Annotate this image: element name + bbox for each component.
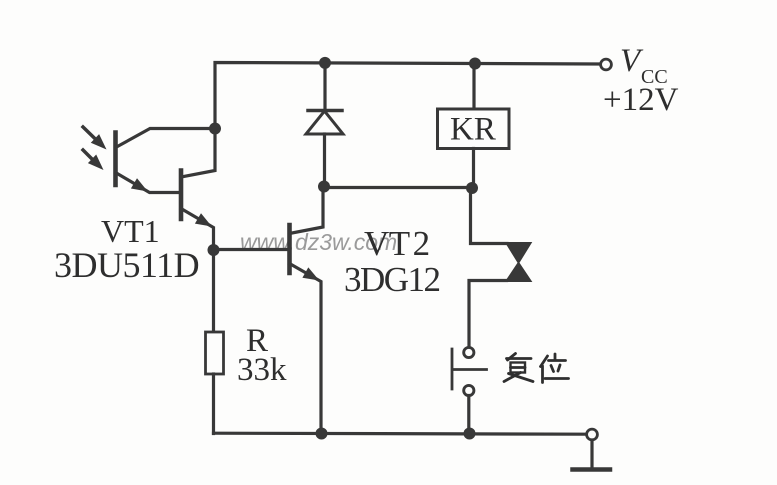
svg-text:KR: KR — [450, 112, 496, 148]
wire VT2 collector — [290, 187, 324, 234]
wire button to bottom rail — [467, 396, 470, 434]
diode VD cathode bar — [308, 109, 342, 113]
reset button bottom contact — [464, 385, 474, 395]
svg-text:3DG12: 3DG12 — [344, 260, 440, 299]
wire bottom rail — [214, 433, 587, 434]
terminal bottom-right open circle — [587, 429, 598, 440]
reset button actuator — [452, 349, 487, 389]
wire resistor to bottom rail — [212, 374, 215, 434]
node top rail diode branch — [319, 57, 331, 69]
svg-text:VT2: VT2 — [364, 224, 430, 263]
svg-text:33k: 33k — [237, 352, 287, 388]
wire diode to node — [323, 134, 326, 187]
wire rail to diode — [323, 63, 326, 111]
resistor R body — [206, 332, 224, 374]
svg-text:+12V: +12V — [603, 82, 679, 118]
relay coil KR box — [438, 109, 510, 149]
light arrow 1 — [83, 127, 107, 150]
wire VT2 base — [214, 248, 290, 251]
phototransistor VT1 first base bar — [113, 133, 118, 186]
node diode / KR / VT2 collector — [318, 181, 330, 193]
trigger diode lower triangle — [507, 263, 531, 281]
复 — [508, 354, 516, 361]
node top rail KR branch — [469, 58, 481, 70]
wire KR to node — [472, 149, 475, 189]
wire VT1 collector horizontal — [117, 129, 216, 148]
wire top rail Vcc — [215, 63, 601, 129]
node VT1 emitter / R / VT2 base — [208, 244, 220, 256]
svg-text:3DU511D: 3DU511D — [54, 245, 199, 285]
wire trigger diode to reset button — [469, 281, 507, 348]
wire VT1 second emitter — [181, 209, 214, 250]
phototransistor VT1 second base bar — [179, 171, 184, 220]
svg-text:VT1: VT1 — [101, 213, 160, 249]
wire node to trigger diode — [471, 188, 508, 244]
transistor VT2 base bar — [287, 225, 292, 273]
位 — [541, 356, 548, 367]
arrowhead VT1 first emitter — [131, 178, 148, 191]
wire node to resistor R — [212, 250, 215, 332]
terminal Vcc open circle — [601, 59, 612, 70]
diode VD triangle — [306, 111, 343, 134]
arrowhead VT1 second emitter — [195, 213, 212, 226]
node VT2 emitter on bottom rail — [316, 428, 328, 440]
wire VT2 emitter — [290, 264, 322, 434]
node top-left (VT1 collector junction) — [209, 123, 221, 135]
wire node to KR bottom node — [324, 186, 472, 189]
wire VT1 second collector — [181, 129, 215, 178]
label reset button 复位 (drawn strokes) — [504, 354, 569, 383]
reset button top contact — [464, 347, 474, 357]
trigger diode upper triangle — [507, 243, 531, 263]
node button on bottom rail — [464, 428, 476, 440]
wire terminal to ground — [590, 440, 593, 469]
light arrow 2 — [83, 150, 104, 170]
wire rail to KR — [472, 64, 475, 110]
wire VT1 emitter to second base — [116, 173, 182, 193]
ground bar — [573, 467, 611, 472]
node KR bottom — [466, 182, 478, 194]
arrowhead VT2 emitter — [302, 267, 319, 280]
